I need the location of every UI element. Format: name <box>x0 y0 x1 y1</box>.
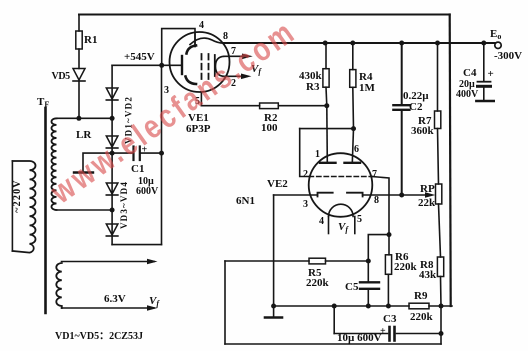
svg-text:360k: 360k <box>411 125 435 137</box>
wire 6.3V top lead with arrow <box>62 261 155 263</box>
node R8/R9 junction <box>439 304 444 309</box>
diode VD5 <box>73 69 85 81</box>
wire grid2 elbow down <box>300 129 310 177</box>
transformer HV secondary winding <box>51 118 56 210</box>
wire ground row y=306 <box>274 305 409 307</box>
diode VD4 <box>106 224 118 235</box>
VE1 heater arc <box>216 56 225 76</box>
diode VD1 <box>106 88 118 99</box>
node VD5 cathode to HV secondary top junction <box>76 116 81 121</box>
wire ground elbow left of C1 <box>83 153 112 171</box>
svg-text:VE2: VE2 <box>267 178 288 190</box>
VE2 heater arch <box>329 204 354 216</box>
svg-text:220k: 220k <box>394 261 418 273</box>
resistor R3 <box>323 69 329 88</box>
svg-text:RP: RP <box>420 183 435 195</box>
resistor R7 <box>435 111 441 129</box>
wire R3 vertical <box>325 43 327 69</box>
VE2 plate bars <box>320 162 336 164</box>
capacitor C1 <box>132 147 134 161</box>
node bus-R3 junction <box>323 41 328 46</box>
svg-text:3: 3 <box>303 199 308 210</box>
wire R2 row y=105.7 <box>201 105 259 107</box>
terminal Eo <box>495 42 501 48</box>
svg-text:7: 7 <box>372 169 377 180</box>
capacitor C2 <box>393 104 409 106</box>
wire R1 to VD5 <box>78 49 80 69</box>
svg-text:VD1~VD5：2CZ53J: VD1~VD5：2CZ53J <box>55 331 143 342</box>
wire left vertical to bottom <box>224 261 226 344</box>
svg-text:6: 6 <box>354 144 359 155</box>
node bus-C4 junction <box>481 41 486 46</box>
node C3 wire junction at x=441 <box>439 331 444 336</box>
node bus-C2 junction <box>399 41 404 46</box>
wire primary left vertical <box>11 161 13 251</box>
svg-text:100: 100 <box>261 122 278 134</box>
svg-text:1M: 1M <box>359 82 376 94</box>
svg-text:R3: R3 <box>306 81 320 93</box>
VE1 beam plate arcs <box>187 46 197 54</box>
svg-text:43k: 43k <box>419 269 437 281</box>
node ground wire at VE2 cathode-3 <box>271 304 276 309</box>
diode VD2 <box>106 136 118 147</box>
wire VE1 pin5 lead down <box>200 92 202 106</box>
svg-text:8: 8 <box>223 31 228 42</box>
svg-text:600V: 600V <box>136 186 159 197</box>
svg-text:Vf: Vf <box>338 221 349 234</box>
svg-text:6.3V: 6.3V <box>104 293 126 305</box>
ground under VE2 <box>273 306 275 317</box>
wire secondary top to rectifier <box>56 117 112 119</box>
wire plate6 lead of VE2 <box>352 129 353 163</box>
wire x441 vertical to bottom <box>440 306 442 344</box>
diode VD3 <box>106 183 118 194</box>
svg-text:~220V: ~220V <box>12 179 23 212</box>
svg-text:C4: C4 <box>463 67 477 79</box>
VE2 cathode right <box>347 193 363 197</box>
wire top horizontal from R1 to right vertical <box>79 14 450 16</box>
wire +545V horizontal <box>112 64 182 66</box>
resistor R2 <box>260 103 279 109</box>
wire pin3 vertical to ground <box>273 195 275 306</box>
VE2 cathode left <box>318 193 333 197</box>
VE1 grid dashes <box>201 54 203 79</box>
node C5 bottom on ground wire <box>366 304 371 309</box>
wire grid7 elbow <box>372 177 389 235</box>
node R6 bottom on ground wire <box>386 304 391 309</box>
svg-text:VD5: VD5 <box>52 71 71 82</box>
svg-text:4: 4 <box>319 216 324 227</box>
svg-text:C2: C2 <box>409 101 423 113</box>
wire elbow to R5 node <box>368 235 389 261</box>
svg-text:+545V: +545V <box>124 51 155 63</box>
wire long right vertical <box>450 15 451 307</box>
svg-text:400V: 400V <box>456 89 479 100</box>
resistor R5 <box>309 258 326 264</box>
node ground wire to C3 drop <box>332 304 337 309</box>
svg-text:C3: C3 <box>383 313 397 325</box>
tube VE2 envelope <box>309 153 373 217</box>
wire R4 vertical <box>352 43 354 70</box>
svg-text:10µ 600V: 10µ 600V <box>337 332 382 344</box>
wire VD5 to secondary-top wire <box>78 81 80 118</box>
svg-text:8: 8 <box>374 195 379 206</box>
capacitor C5 <box>360 281 379 283</box>
node R5 / C5 / grid-7 elbow junction <box>366 259 371 264</box>
node bus-R4 junction <box>350 41 355 46</box>
resistor R9 <box>409 303 429 309</box>
tube VE1 envelope <box>170 32 230 92</box>
svg-text:220k: 220k <box>306 277 330 289</box>
node VE1 grid / R2 / R3 / VE2 plate-1 junction <box>324 103 329 108</box>
wire rectifier box bottom <box>112 244 161 246</box>
node C1 right plate on x=161.5 vertical <box>159 151 164 156</box>
wire VE2 pin8 lead to RP <box>363 194 429 196</box>
svg-text:+: + <box>488 68 494 80</box>
transformer 6.3V winding <box>56 263 62 308</box>
wire VE1 heater pin7 arrow <box>224 55 248 57</box>
wire VE2 heater leads <box>328 217 330 234</box>
wire RP/R7/R8 column <box>437 43 439 111</box>
node VD3-VD4 junction to secondary bottom <box>110 208 115 213</box>
svg-text:R9: R9 <box>414 290 428 302</box>
wire 6.3V bottom lead with arrow <box>62 307 155 309</box>
svg-text:R1: R1 <box>84 34 97 46</box>
svg-text:1: 1 <box>315 149 320 160</box>
wire rectifier column <box>111 65 113 244</box>
node rectifier column at secondary-top wire <box>110 116 115 121</box>
resistor R1 <box>76 31 82 49</box>
svg-text:Vf: Vf <box>149 295 160 308</box>
VE1 pin4 lead inside <box>194 34 196 46</box>
wire VE2 pin3 lead <box>274 194 318 196</box>
VE2 grid dashed line <box>309 176 372 178</box>
svg-text:6P3P: 6P3P <box>186 123 211 135</box>
node C2 bottom on VE2 cathode-8 wire <box>399 193 404 198</box>
node VE2 grid-7 / R6 top junction <box>387 232 392 237</box>
svg-text:4: 4 <box>199 20 204 31</box>
transformer primary winding <box>12 161 35 253</box>
wire bottom perimeter <box>225 343 441 345</box>
VE1 anode bar pin3 <box>181 56 183 74</box>
wire C1 row y=153 <box>112 152 133 154</box>
resistor R8 <box>437 257 443 277</box>
capacitor C4 <box>483 43 485 81</box>
node R4 / VE2 plate-6 / grid-2 wire junction <box>351 126 356 131</box>
VE1 pin8 cathode arc to bus <box>190 38 224 44</box>
wire plate1 lead of VE2 <box>326 106 329 163</box>
wire right vertical x=161.5 <box>161 65 163 244</box>
potentiometer RP <box>436 184 442 204</box>
watermark www.elecfans.com (decorative overlay) <box>44 13 303 211</box>
bus +300V horizontal y=43 <box>223 42 495 44</box>
svg-text:5: 5 <box>357 214 362 225</box>
wire C2 vertical <box>401 43 403 104</box>
transformer T core <box>44 108 47 313</box>
wire secondary bottom to rectifier <box>56 209 112 211</box>
svg-text:C5: C5 <box>345 281 359 293</box>
svg-text:-300V: -300V <box>494 50 522 62</box>
svg-text:LR: LR <box>76 129 92 141</box>
VE1 cathode line <box>214 55 216 76</box>
ground near C1 <box>74 171 93 173</box>
node C1 plus / VD2-VD3 junction <box>110 151 115 156</box>
wire pin4 elbow of VE1 <box>162 29 195 66</box>
svg-text:2: 2 <box>303 169 308 180</box>
svg-text:Eo: Eo <box>490 28 501 41</box>
resistor R4 <box>350 70 356 88</box>
svg-text:22k: 22k <box>418 197 436 209</box>
wire R6 drop <box>388 235 390 255</box>
svg-text:220k: 220k <box>410 311 434 323</box>
capacitor C3 <box>388 327 391 341</box>
wire C5 vertical <box>367 261 369 281</box>
resistor R6 <box>385 255 391 274</box>
wire R5 row y=261 <box>225 260 309 262</box>
svg-text:TF: TF <box>37 96 49 109</box>
wire R1 top lead <box>78 15 80 32</box>
wire VE1 heater pin2 arrow <box>224 75 247 77</box>
svg-text:6N1: 6N1 <box>236 195 255 207</box>
wire C3 row y=333.5 <box>333 306 335 334</box>
node bus-R7 junction <box>435 41 440 46</box>
svg-text:C1: C1 <box>131 163 144 175</box>
svg-text:VD3~VD4: VD3~VD4 <box>119 181 129 229</box>
wire grid2 row y=128.6 <box>300 128 354 130</box>
node +545V junction (rectifier output / VE1 plate / screen elbow / C1 branch) <box>159 63 164 68</box>
